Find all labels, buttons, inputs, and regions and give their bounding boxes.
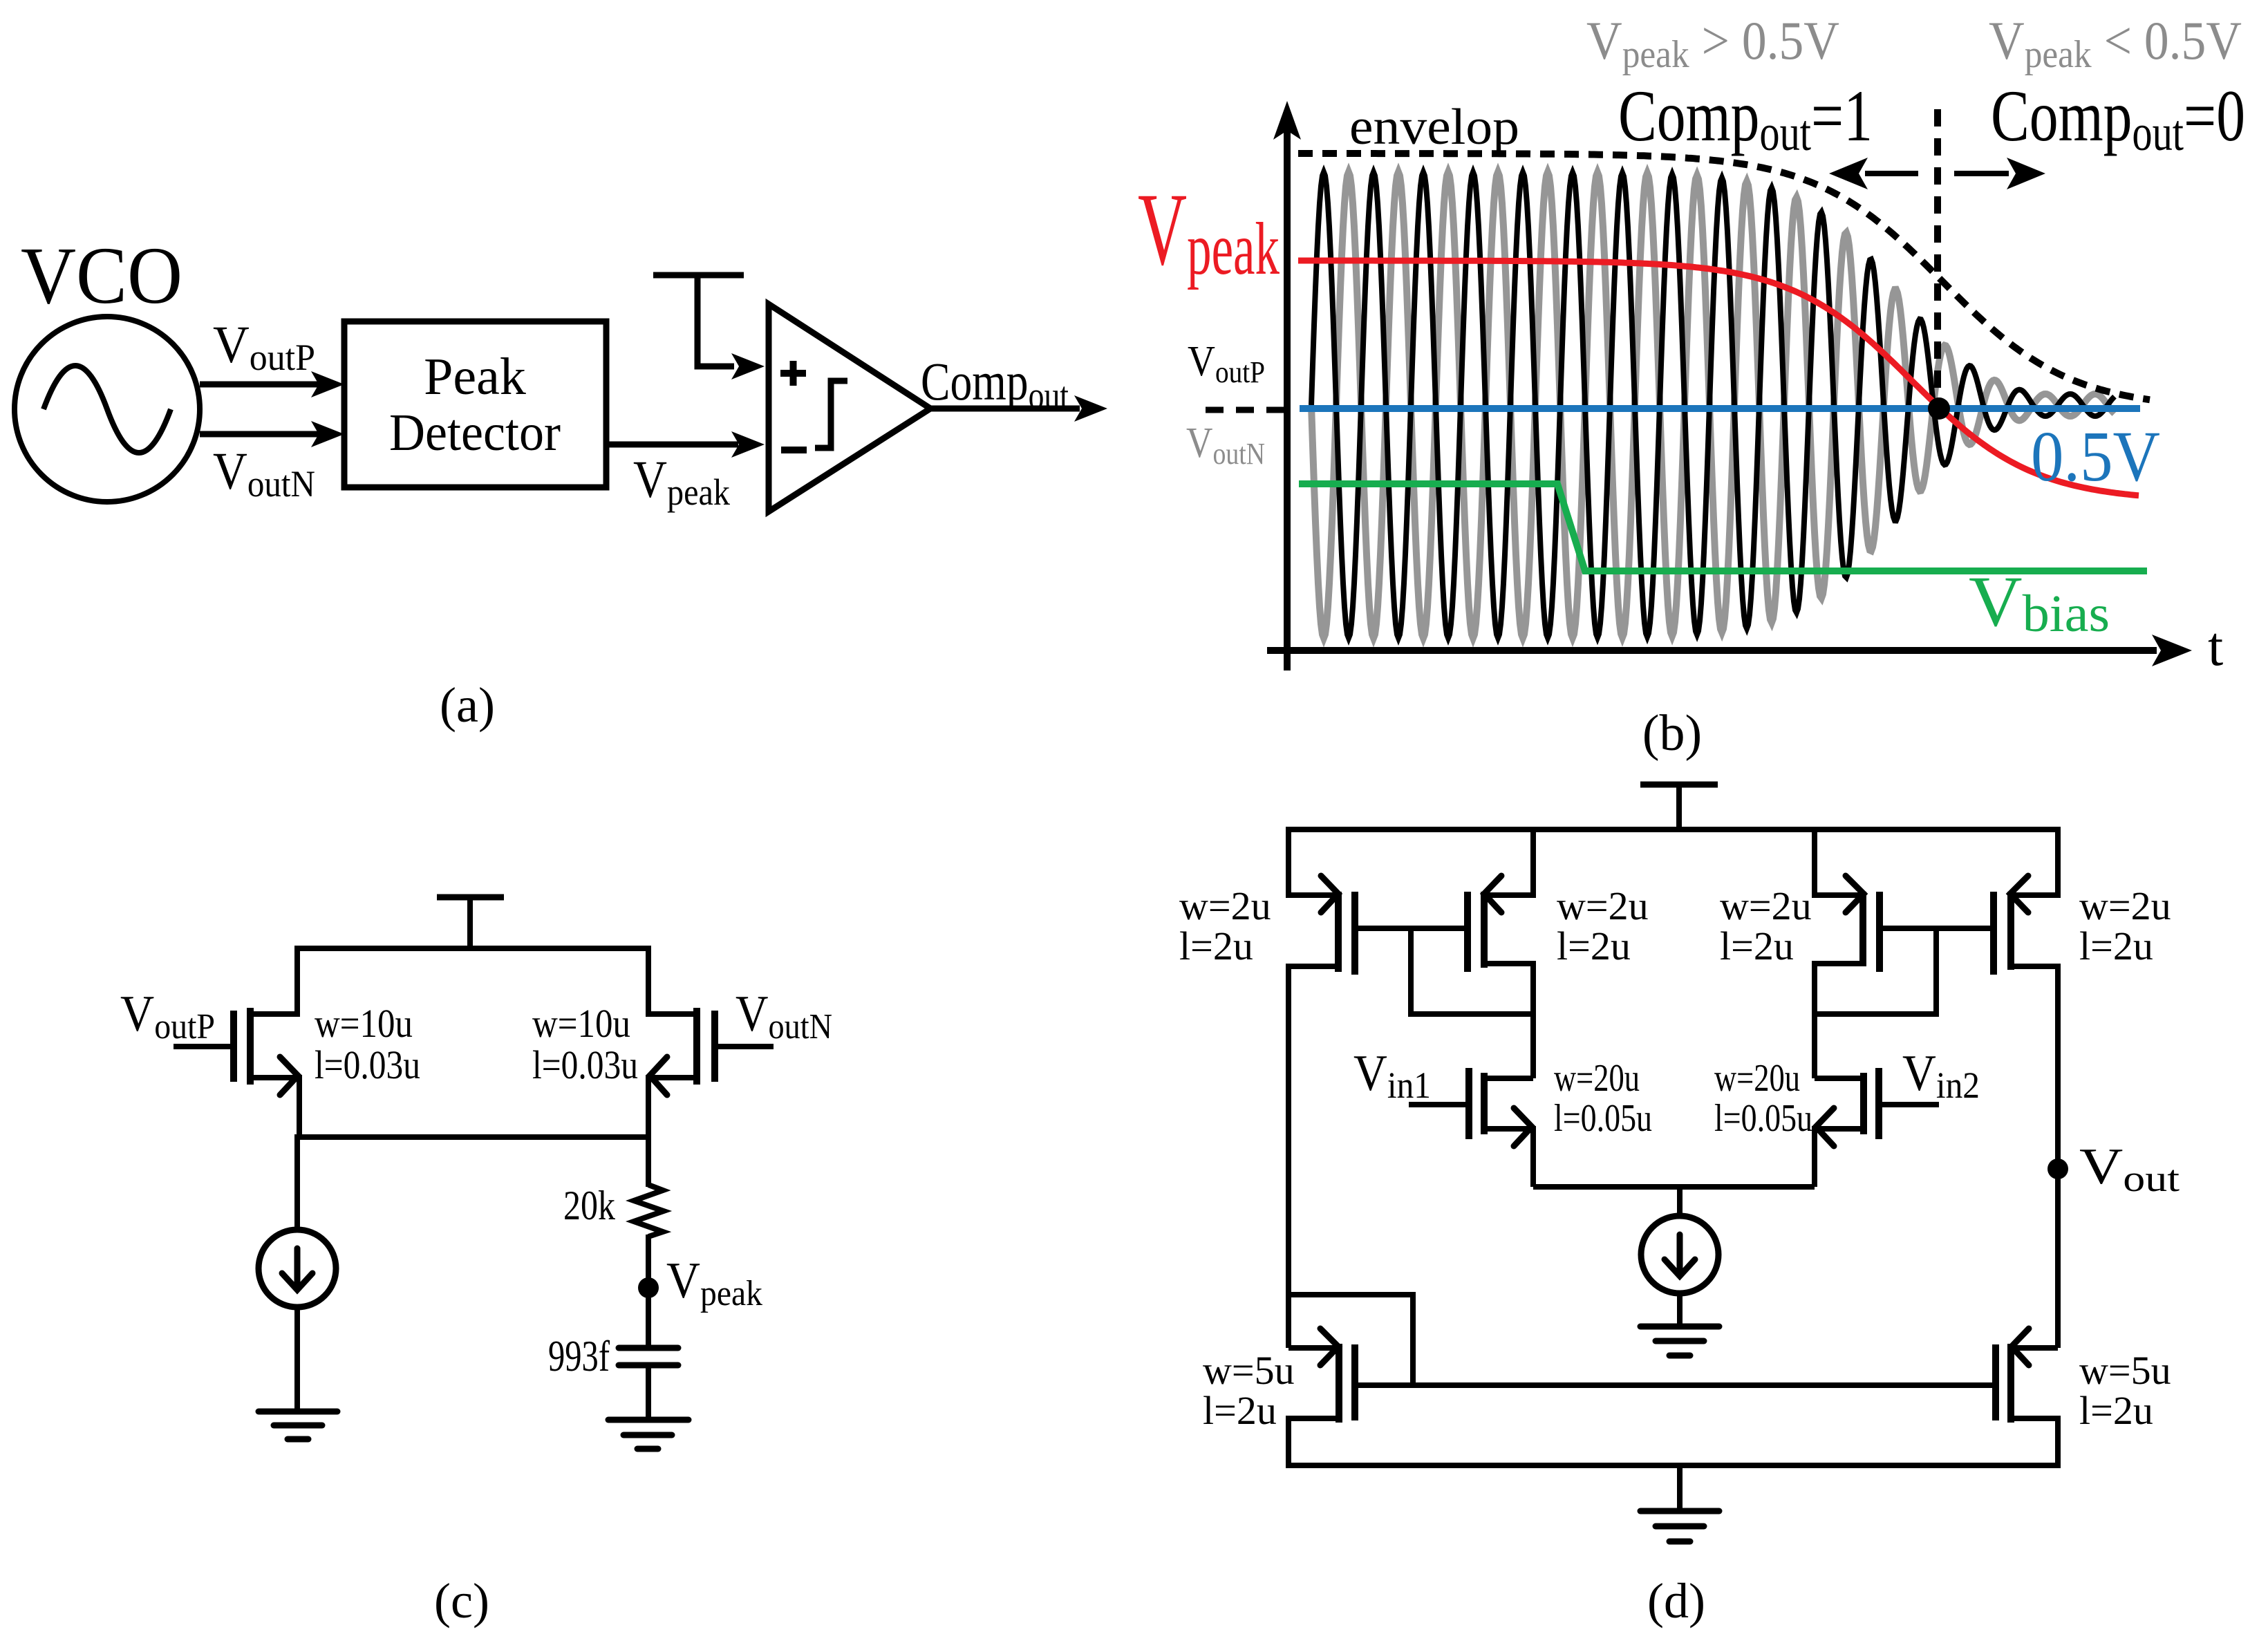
wire top rail d xyxy=(1286,827,2061,832)
ground right c xyxy=(608,1417,688,1423)
M3 source wire with arrow xyxy=(1484,1129,1533,1187)
P2 drain wire xyxy=(1484,964,1533,1078)
wire Compout xyxy=(930,406,1080,412)
svg-text:993f: 993f xyxy=(548,1331,610,1380)
left arrow Compout=1 region xyxy=(1865,171,1918,176)
svg-text:0.5V: 0.5V xyxy=(2031,417,2160,496)
wire rail to ground d xyxy=(1677,1465,1683,1511)
wire tail to current source xyxy=(294,1137,300,1231)
capacitor 993f xyxy=(619,1345,678,1351)
transistor M5 xyxy=(1336,1344,1342,1423)
svg-text:l=0.03u: l=0.03u xyxy=(532,1042,638,1087)
wire M2 drain xyxy=(648,946,694,1014)
transistor M4 xyxy=(1860,1073,1867,1134)
current source I2 xyxy=(1641,1216,1718,1293)
transistor M2 xyxy=(693,1008,700,1085)
wire Vpeak xyxy=(606,442,738,448)
svg-text:w=2u: w=2u xyxy=(1179,883,1271,928)
M4 drain wire xyxy=(1815,1076,1864,1081)
op-amp comparator xyxy=(769,304,930,512)
svg-text:l=2u: l=2u xyxy=(1179,923,1253,968)
sine symbol xyxy=(44,366,171,453)
svg-text:w=2u: w=2u xyxy=(2079,883,2171,928)
wire VoutN xyxy=(200,431,319,438)
wire supply stem d xyxy=(1676,785,1682,829)
svg-text:w=10u: w=10u xyxy=(532,1001,630,1046)
transistor P2 xyxy=(1481,892,1488,968)
svg-text:l=0.03u: l=0.03u xyxy=(315,1042,420,1087)
ground left c xyxy=(259,1409,337,1415)
plus input sign xyxy=(780,361,806,386)
svg-text:Compout=0: Compout=0 xyxy=(1991,75,2245,162)
svg-text:VCO: VCO xyxy=(21,230,182,321)
transistor M6 xyxy=(2007,1344,2014,1423)
M6 source wire xyxy=(2011,1418,2058,1468)
dashed envelope curve xyxy=(1298,153,2150,400)
svg-text:(c): (c) xyxy=(434,1573,489,1629)
ground middle d xyxy=(1640,1324,1719,1330)
dashed 0.5V level line left of axis xyxy=(1206,407,1288,413)
wire M5M6 gates xyxy=(1355,1382,1996,1388)
svg-text:envelop: envelop xyxy=(1349,99,1519,156)
resistor 20k xyxy=(634,1185,664,1237)
crossing node dot xyxy=(1928,397,1950,420)
node Vout xyxy=(2047,1159,2068,1179)
svg-text:w=20u: w=20u xyxy=(1554,1057,1640,1100)
minus input sign xyxy=(781,447,807,453)
right arrow Compout=0 region xyxy=(1954,171,2009,176)
wire resistor to node xyxy=(646,1235,651,1288)
wire VoutP xyxy=(200,382,319,388)
svg-text:Peak: Peak xyxy=(424,348,526,406)
wire P1P2 gates xyxy=(1355,926,1468,931)
svg-text:w=5u: w=5u xyxy=(2079,1348,2171,1393)
supply rail symbol xyxy=(653,272,744,279)
svg-text:w=20u: w=20u xyxy=(1714,1057,1800,1100)
M3 drain wire xyxy=(1484,1076,1533,1081)
wire P2 diode connection xyxy=(1411,928,1533,1014)
svg-text:l=0.05u: l=0.05u xyxy=(1714,1097,1812,1140)
svg-text:20k: 20k xyxy=(563,1183,615,1228)
svg-text:w=10u: w=10u xyxy=(315,1001,413,1046)
P4 drain wire xyxy=(2011,966,2058,1348)
wire tail to resistor xyxy=(646,1137,651,1187)
svg-text:l=2u: l=2u xyxy=(1557,923,1631,968)
svg-text:Detector: Detector xyxy=(389,404,561,462)
current source I1 xyxy=(259,1230,336,1307)
M5 diode connection xyxy=(1288,1295,1413,1385)
transistor M3 xyxy=(1481,1073,1488,1134)
wire current source to ground d xyxy=(1677,1293,1683,1326)
M5 drain wire with arrow xyxy=(1288,1345,1339,1351)
VCO sine source xyxy=(15,317,200,502)
curve VoutP black wave xyxy=(1311,172,2115,638)
svg-text:l=2u: l=2u xyxy=(2079,1388,2153,1433)
P1 drain wire xyxy=(1288,966,1338,1348)
P3 drain wire xyxy=(1815,964,1863,1078)
wire supply to comparator xyxy=(697,275,734,366)
wire tail to current source d xyxy=(1677,1187,1683,1217)
x axis t xyxy=(1267,647,2157,654)
ground bottom d xyxy=(1640,1508,1719,1514)
wire left vertical top xyxy=(1288,827,1338,895)
wire bottom rail d xyxy=(1286,1463,2061,1468)
y axis xyxy=(1284,126,1291,670)
svg-text:l=2u: l=2u xyxy=(1203,1388,1277,1433)
supply rail symbol d xyxy=(1640,782,1718,788)
svg-text:Compout=1: Compout=1 xyxy=(1618,75,1873,162)
wire M1 drain xyxy=(253,946,297,1014)
svg-text:l=2u: l=2u xyxy=(2079,923,2153,968)
transistor P3 xyxy=(1859,892,1866,966)
wire top rail c xyxy=(294,946,651,951)
wire tail d xyxy=(1533,1184,1815,1190)
curve VoutN gray wave xyxy=(1311,172,2115,638)
wire current source to ground xyxy=(294,1307,300,1411)
vertical dashed threshold line xyxy=(1934,109,1941,400)
hysteresis symbol xyxy=(815,381,847,448)
svg-text:(b): (b) xyxy=(1642,705,1702,762)
Peak Detector block xyxy=(344,321,606,487)
svg-text:(d): (d) xyxy=(1647,1573,1705,1629)
svg-text:l=2u: l=2u xyxy=(1720,923,1794,968)
svg-text:(a): (a) xyxy=(440,677,495,733)
supply rail symbol c xyxy=(437,894,504,901)
svg-text:t: t xyxy=(2208,617,2223,677)
svg-text:l=0.05u: l=0.05u xyxy=(1554,1097,1652,1140)
wire tail c xyxy=(294,1134,651,1140)
wire supply stem c xyxy=(467,897,473,948)
M5 source wire xyxy=(1288,1418,1339,1468)
wire P3P4 gates xyxy=(1880,926,1994,931)
svg-text:w=2u: w=2u xyxy=(1557,883,1649,928)
green Vbias line xyxy=(1299,484,2147,571)
transistor M1 xyxy=(247,1008,254,1085)
transistor P4 xyxy=(2007,892,2014,970)
M6 drain wire with arrow xyxy=(2011,1345,2058,1351)
transistor P1 xyxy=(1335,892,1342,972)
wire node to capacitor xyxy=(646,1288,651,1348)
blue 0.5V line xyxy=(1300,405,2140,412)
svg-text:w=2u: w=2u xyxy=(1720,883,1812,928)
red Vpeak curve xyxy=(1298,261,2139,496)
svg-text:w=5u: w=5u xyxy=(1203,1348,1295,1393)
wire P3 diode connection xyxy=(1815,928,1936,1014)
wire capacitor to ground xyxy=(646,1365,651,1420)
M2 source wire with arrow xyxy=(648,1078,697,1137)
node Vpeak xyxy=(638,1277,659,1298)
M1 source wire with arrow xyxy=(250,1078,299,1137)
M4 source wire with arrow xyxy=(1815,1129,1864,1187)
